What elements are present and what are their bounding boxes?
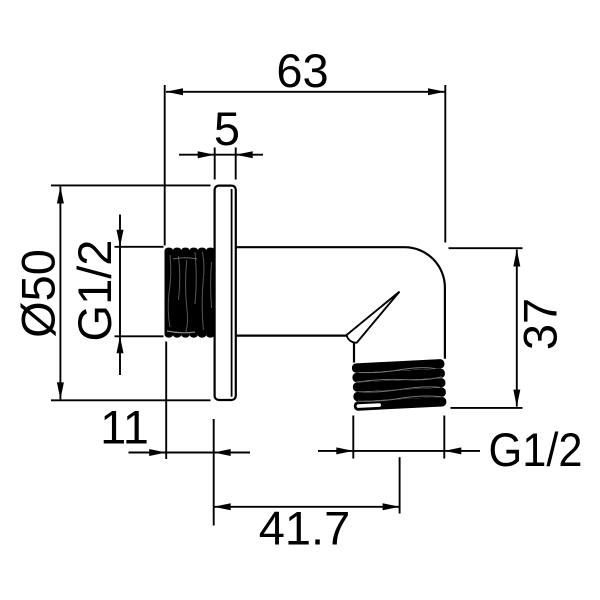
outlet thread G1/2 (bottom) bbox=[352, 359, 447, 411]
svg-text:11: 11 bbox=[100, 401, 149, 454]
dimension 5 (plate thickness) bbox=[179, 148, 263, 180]
pipe elbow body bbox=[236, 247, 445, 362]
dimension G1/2 (inlet thread, left) bbox=[115, 215, 164, 376]
wall plate (escutcheon) bbox=[215, 186, 236, 400]
dimension D50 (plate diameter, left) bbox=[51, 185, 211, 400]
svg-text:5: 5 bbox=[214, 102, 240, 155]
cone silhouette wedge at elbow inner corner bbox=[347, 292, 400, 343]
svg-text:G1/2: G1/2 bbox=[68, 240, 121, 342]
dimension 63 (top) bbox=[165, 85, 446, 246]
dimension 41.7 (outlet offset, bottom) bbox=[214, 457, 400, 513]
svg-text:37: 37 bbox=[514, 298, 567, 350]
svg-text:41.7: 41.7 bbox=[259, 502, 350, 555]
dimension 11 (thread stand-off, lower left) bbox=[129, 342, 251, 526]
dimension 37 (right) bbox=[449, 248, 523, 408]
outlet thread texture bbox=[355, 367, 442, 402]
dimension G1/2 (outlet thread, bottom) bbox=[318, 416, 480, 459]
inlet thread texture bbox=[167, 252, 212, 333]
svg-text:Ø50: Ø50 bbox=[12, 249, 65, 338]
svg-text:G1/2: G1/2 bbox=[489, 423, 583, 476]
inlet thread G1/2 (left, wall side) bbox=[165, 248, 215, 338]
svg-text:63: 63 bbox=[276, 44, 328, 97]
outlet thread chamfer highlight bbox=[356, 403, 381, 408]
